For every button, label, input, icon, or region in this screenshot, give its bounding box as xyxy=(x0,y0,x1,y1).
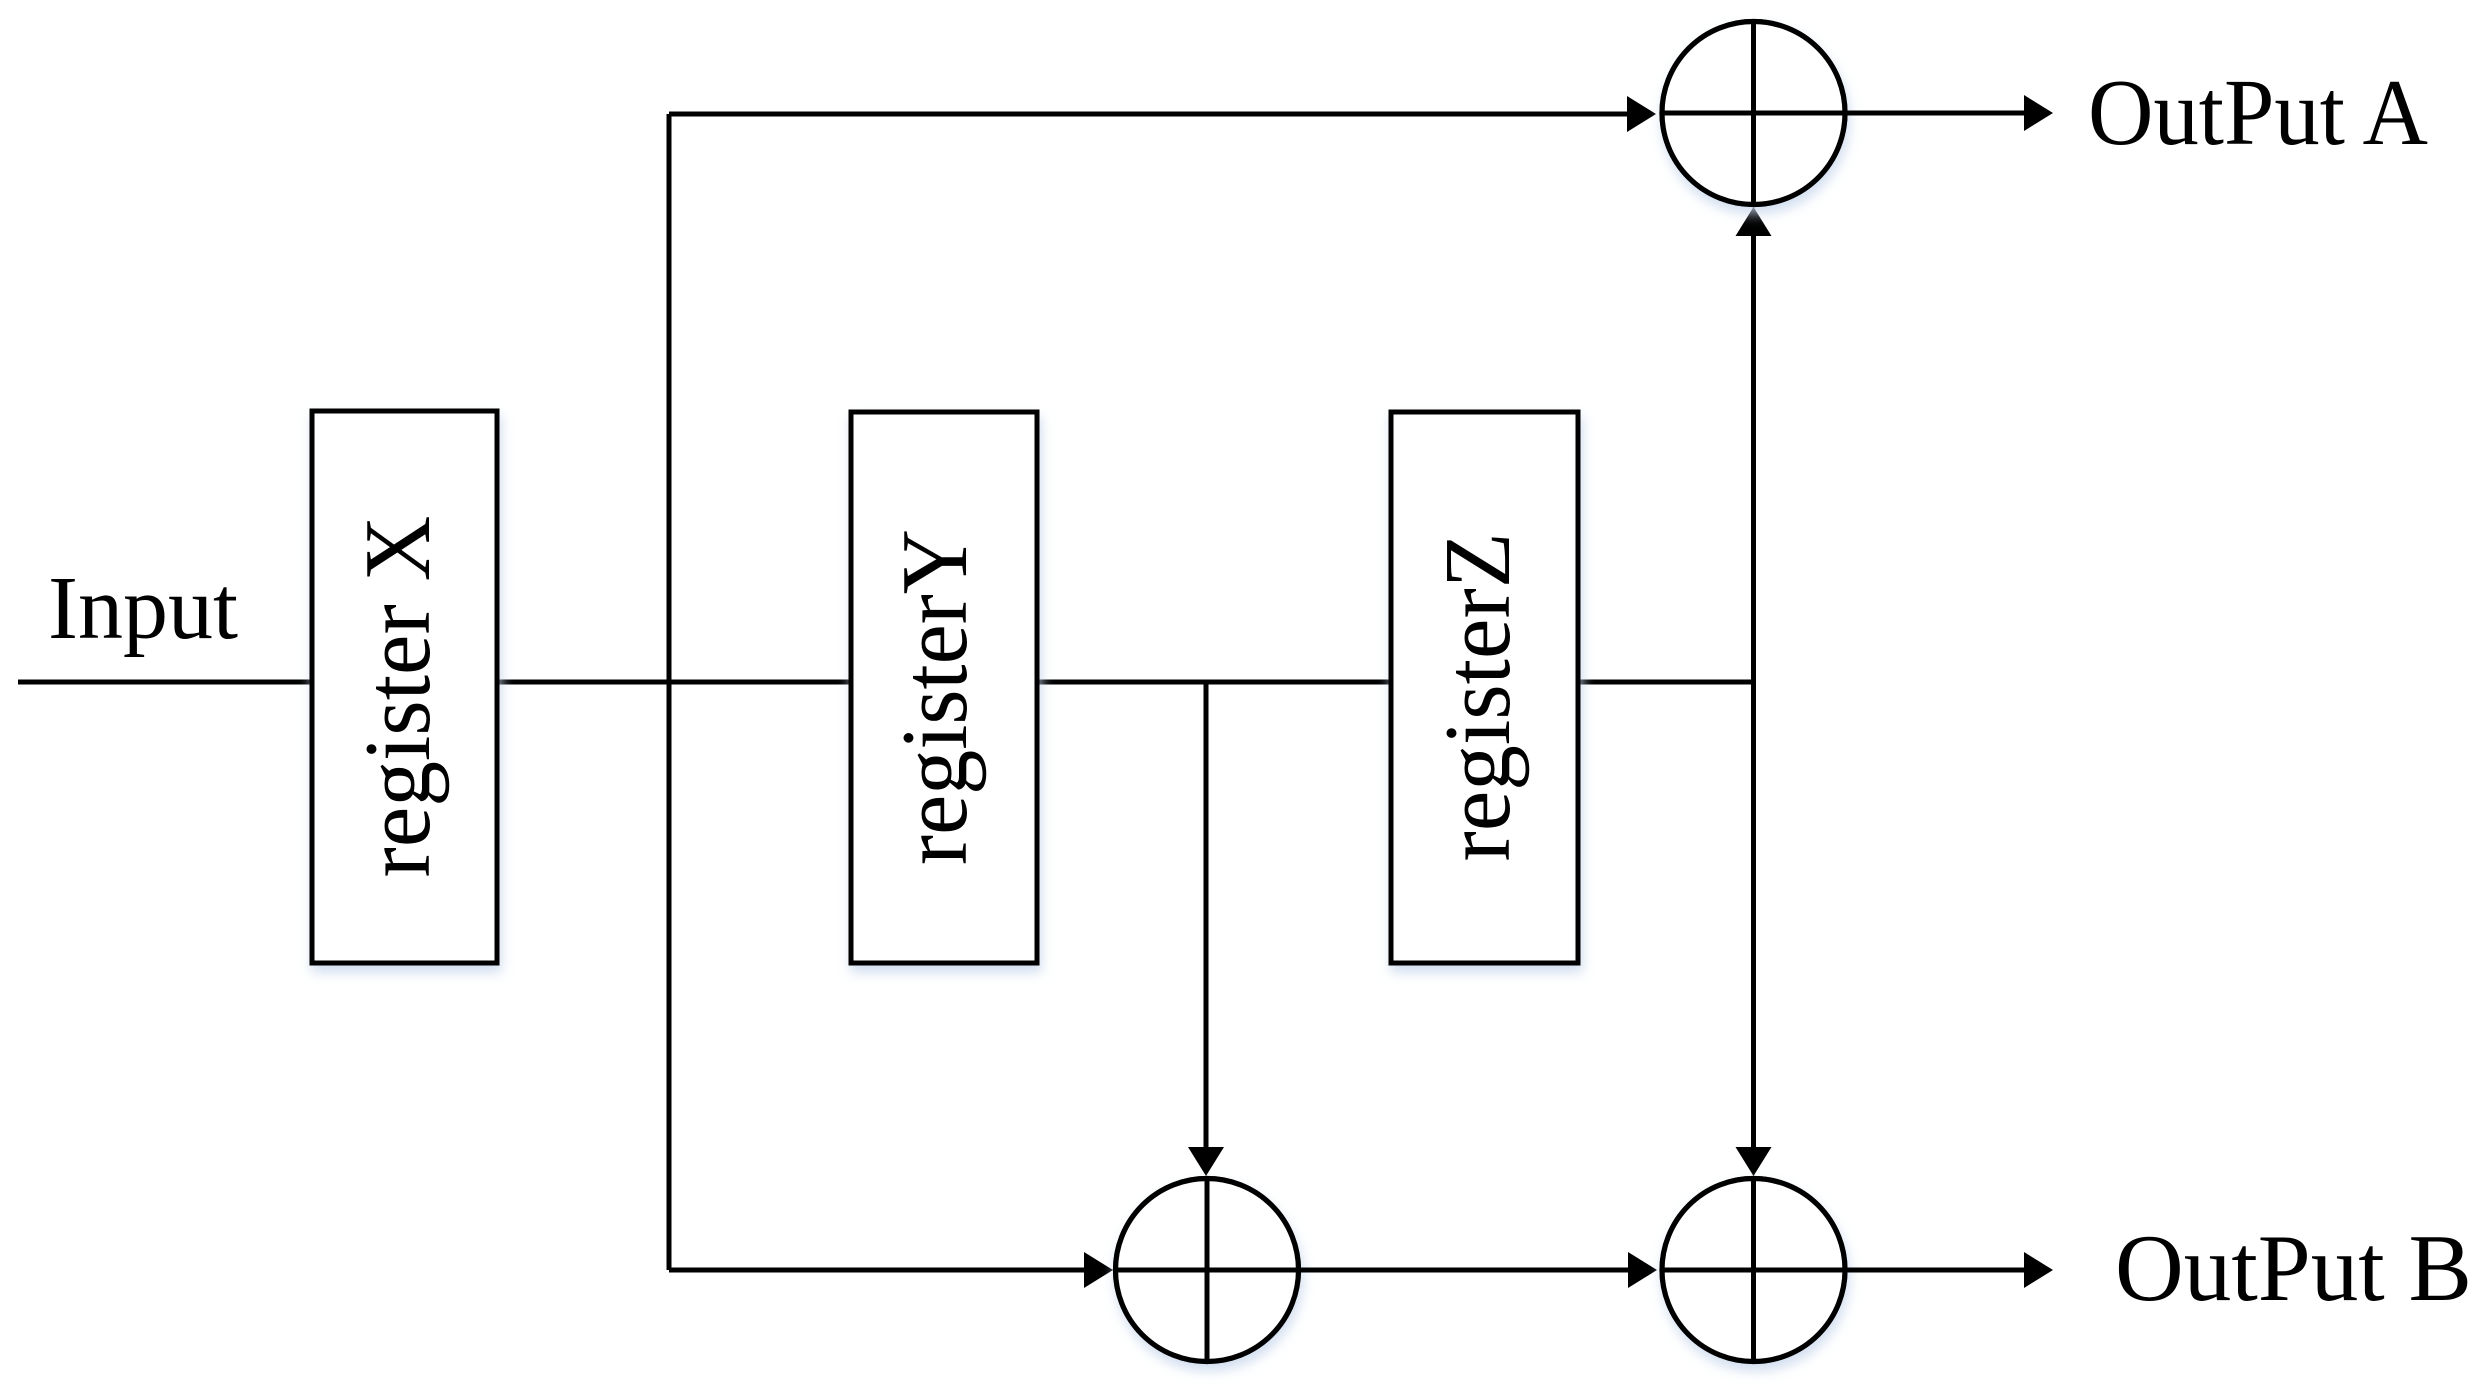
svg-text:registerY: registerY xyxy=(883,529,987,865)
arrowhead into XOR A left xyxy=(1627,96,1656,132)
svg-text:registerZ: registerZ xyxy=(1426,533,1530,862)
register Z box xyxy=(1391,412,1578,963)
XOR adder B2 (bottom right) xyxy=(1662,1179,1845,1362)
register Y box xyxy=(851,412,1037,963)
arrowhead down into XOR B2 top xyxy=(1736,1147,1772,1176)
wire: output B arrow xyxy=(1845,1268,2025,1273)
wire: top line to XOR A xyxy=(669,112,1628,117)
arrowhead into XOR B1 left xyxy=(1084,1252,1113,1288)
XOR adder B1 (bottom middle) xyxy=(1116,1179,1299,1362)
svg-text:Input: Input xyxy=(48,559,238,658)
arrowhead into XOR B2 left xyxy=(1628,1252,1657,1288)
svg-text:OutPut B: OutPut B xyxy=(2115,1215,2469,1321)
XOR adder A (top right) xyxy=(1662,22,1845,205)
arrowhead up into XOR A bottom xyxy=(1736,207,1772,236)
wire: vertical line from XOR A down to XOR B2 xyxy=(1751,236,1756,1147)
wire: from XOR B1 to XOR B2 xyxy=(1298,1268,1628,1273)
svg-text:OutPut A: OutPut A xyxy=(2088,61,2428,165)
arrowhead into XOR B1 top xyxy=(1188,1147,1224,1176)
svg-text:register X: register X xyxy=(346,516,450,878)
wire: main input line xyxy=(18,680,1753,685)
wire: bottom line from branch corner to XOR B1 xyxy=(669,1268,1085,1273)
wire: vertical branch from node after register X xyxy=(667,114,672,1270)
wire: drop line from register Y output down to XOR B1 xyxy=(1204,682,1209,1147)
wire: output A arrow xyxy=(1845,111,2025,116)
register X box xyxy=(312,411,497,963)
